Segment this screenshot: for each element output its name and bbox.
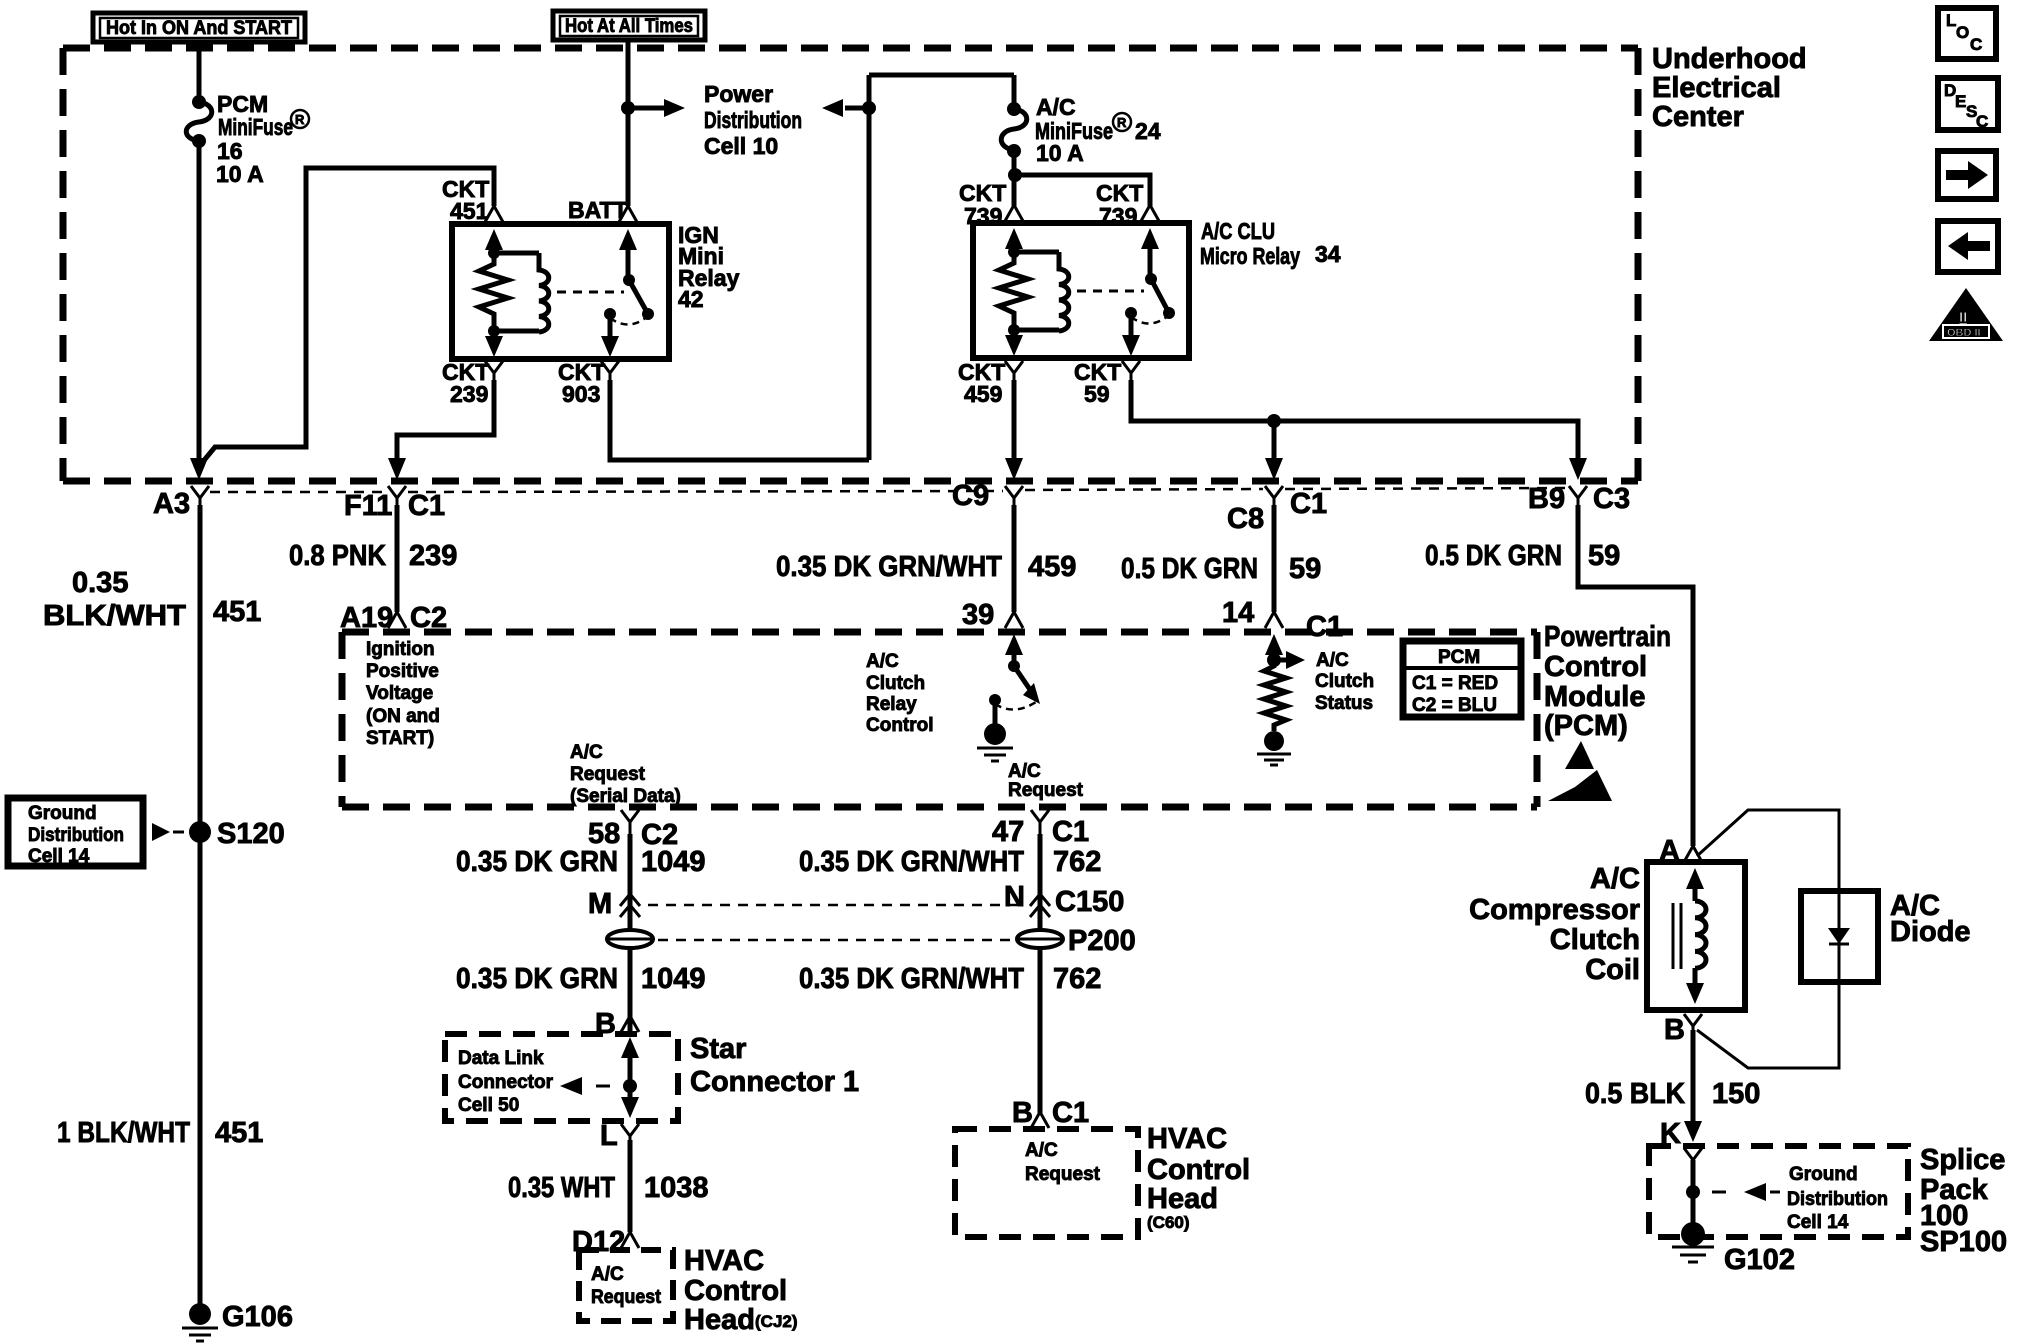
svg-text:F11: F11 <box>344 490 392 522</box>
icon DESC box <box>1938 78 1998 131</box>
svg-text:BLK/WHT: BLK/WHT <box>43 600 186 632</box>
label 0.5 BLK 150 <box>1585 1078 1760 1110</box>
svg-text:P200: P200 <box>1068 925 1136 957</box>
coil winding <box>1695 901 1706 968</box>
svg-text:Power: Power <box>704 81 773 107</box>
svg-text:C: C <box>1970 35 1982 54</box>
svg-text:10 A: 10 A <box>216 161 264 187</box>
relay 42 switch output arrow down <box>601 318 619 357</box>
svg-text:239: 239 <box>450 381 488 407</box>
label A/C Request (Serial Data) <box>570 742 681 807</box>
pin K (Y arms up) <box>1660 1118 1702 1170</box>
box HVAC Control Head C60 (dashed) <box>955 1129 1138 1237</box>
svg-text:O: O <box>1956 23 1969 42</box>
svg-text:HVAC: HVAC <box>684 1245 764 1277</box>
label HVAC Control Head (CJ2) <box>684 1245 798 1336</box>
svg-text:Ground: Ground <box>1789 1164 1858 1185</box>
svg-text:R: R <box>1117 115 1127 130</box>
svg-text:A/C: A/C <box>1036 94 1076 120</box>
svg-text:Star: Star <box>690 1033 746 1065</box>
svg-text:Cell 10: Cell 10 <box>704 133 778 159</box>
svg-text:Hot In ON And START: Hot In ON And START <box>106 18 292 39</box>
svg-text:Connector: Connector <box>458 1072 554 1093</box>
arrowhead into B9 <box>1569 458 1587 480</box>
svg-text:Underhood: Underhood <box>1652 43 1807 75</box>
label CKT 451 <box>442 176 489 224</box>
label 0.35 BLK/WHT 451 <box>43 567 261 632</box>
svg-text:24: 24 <box>1135 118 1161 144</box>
svg-text:Micro Relay: Micro Relay <box>1200 243 1300 269</box>
box Ground Distribution Cell 14 (left) <box>8 798 143 867</box>
label 0.35 DK GRN 1049 <box>456 846 706 878</box>
svg-text:Distribution: Distribution <box>1787 1189 1888 1210</box>
pin 14 / C1 (arms down) <box>1222 597 1343 643</box>
header label box "Hot At All Times" <box>553 11 705 40</box>
wire C8 down to pin 14 <box>1272 505 1277 612</box>
svg-text:59: 59 <box>1289 553 1321 585</box>
svg-text:A/C: A/C <box>1025 1140 1058 1161</box>
icon right-arrow box <box>1938 151 1996 199</box>
svg-text:739: 739 <box>964 203 1002 229</box>
wire branch down to C8 <box>1272 421 1277 462</box>
label A/C Request (PCM pin 47) <box>1008 761 1084 801</box>
svg-text:Cell 50: Cell 50 <box>458 1095 519 1116</box>
svg-text:A/C: A/C <box>591 1264 624 1285</box>
arrow right toward Power Distribution <box>628 106 668 111</box>
A/C clutch status: arrow up to pin 14 <box>1265 634 1305 669</box>
svg-text:47: 47 <box>992 816 1024 848</box>
svg-text:Module: Module <box>1544 681 1646 713</box>
pin 47 / C1 (Y arms up) <box>992 810 1089 848</box>
header label box "Hot In ON And START" <box>93 13 305 42</box>
svg-text:Splice: Splice <box>1920 1144 2005 1176</box>
relay 34 actuating dashed link <box>1077 290 1144 293</box>
wire L down to D12 <box>628 1140 633 1232</box>
resistor R (relay 34 coil resistor) <box>999 252 1028 330</box>
junction dot coil bottom <box>488 325 500 337</box>
svg-text:10 A: 10 A <box>1036 140 1084 166</box>
relay 42 coil output arrow down <box>485 331 503 357</box>
svg-text:C1 = RED: C1 = RED <box>1412 673 1498 694</box>
pin CKT239 connector (Y arms up) <box>485 361 503 382</box>
label CKT 739 (right) <box>1096 180 1143 229</box>
resistor R (relay 42 coil resistor) <box>479 253 508 331</box>
wire CKT59 across to B9 <box>1131 380 1578 462</box>
svg-text:Request: Request <box>591 1287 662 1308</box>
svg-text:1049: 1049 <box>641 846 706 878</box>
svg-text:MiniFuse: MiniFuse <box>218 114 293 140</box>
svg-text:Distribution: Distribution <box>704 107 802 133</box>
box HVAC Control Head CJ2 (dashed) <box>579 1250 673 1321</box>
svg-text:Request: Request <box>570 764 646 785</box>
PCM dashed enclosure <box>342 632 1537 807</box>
pin B compressor clutch coil (Y arms up) <box>1664 1014 1702 1046</box>
coil interior: arrow up <box>1686 868 1704 901</box>
svg-text:(PCM): (PCM) <box>1544 710 1628 742</box>
pin B / C1 into HVAC head (arms down) <box>1012 1097 1089 1129</box>
svg-text:Data Link: Data Link <box>458 1048 544 1069</box>
svg-text:OBD II: OBD II <box>1947 327 1981 339</box>
label A/C MiniFuse 24 10 A <box>1035 94 1161 166</box>
svg-text:A/C: A/C <box>1590 863 1640 895</box>
wire fuse24 to switch-side pin <box>1014 175 1150 206</box>
PCM connector legend box <box>1403 641 1521 717</box>
relay 34 coil output arrow down <box>1005 330 1023 356</box>
svg-text:0.8 PNK: 0.8 PNK <box>289 540 386 572</box>
arrowhead into K <box>1684 1121 1702 1142</box>
svg-text:150: 150 <box>1712 1078 1760 1110</box>
label 0.35 DK GRN/WHT 762 (second) <box>799 963 1101 995</box>
svg-text:Cell 14: Cell 14 <box>28 846 90 867</box>
svg-text:L: L <box>600 1120 618 1152</box>
wire 47/C1 down through N to B/C1 <box>1038 834 1043 1114</box>
svg-text:0.35 DK GRN/WHT: 0.35 DK GRN/WHT <box>799 846 1024 878</box>
svg-text:Cell 14: Cell 14 <box>1787 1212 1849 1233</box>
svg-text:G102: G102 <box>1724 1244 1795 1276</box>
label Splice Pack 100 SP100 <box>1920 1144 2007 1258</box>
svg-text:II: II <box>1959 309 1967 326</box>
wire A/C fuse drop <box>1012 75 1017 105</box>
svg-text:Coil: Coil <box>1585 954 1640 986</box>
svg-text:Clutch: Clutch <box>1315 671 1374 692</box>
svg-text:Connector 1: Connector 1 <box>690 1066 859 1098</box>
svg-text:C9: C9 <box>952 480 989 512</box>
A/C diode box <box>1801 891 1878 982</box>
junction dot coil top <box>488 247 500 259</box>
svg-text:Head: Head <box>684 1304 755 1336</box>
fuse A/C MiniFuse 24 (symbol) <box>1001 102 1027 158</box>
svg-text:C1: C1 <box>1052 1097 1089 1129</box>
star connector interior: arrow down <box>621 1086 639 1118</box>
pin B into star connector (arms down) <box>595 1008 639 1040</box>
arrowhead into F11 <box>388 458 406 480</box>
label Data Link Connector Cell 50 <box>458 1048 554 1116</box>
pin D12 (arms down) <box>572 1226 639 1258</box>
label A/C CLU Micro Relay 34 <box>1200 218 1341 269</box>
star connector interior: arrow up <box>621 1037 639 1095</box>
pin CKT59 connector (Y arms up) <box>1122 361 1140 382</box>
box Splice Pack 100 (dashed) <box>1649 1146 1908 1237</box>
svg-text:762: 762 <box>1053 963 1101 995</box>
svg-text:Electrical: Electrical <box>1652 72 1781 104</box>
relay U42 IGN Mini Relay box <box>452 224 669 359</box>
svg-text:BATT: BATT <box>568 197 628 223</box>
svg-text:START): START) <box>366 728 434 749</box>
svg-text:Control: Control <box>684 1275 787 1307</box>
svg-text:1038: 1038 <box>644 1172 709 1204</box>
svg-text:739: 739 <box>1099 203 1137 229</box>
svg-text:0.35 DK GRN/WHT: 0.35 DK GRN/WHT <box>776 551 1002 583</box>
svg-text:Compressor: Compressor <box>1469 894 1640 926</box>
svg-text:L: L <box>1946 11 1956 30</box>
svg-text:14: 14 <box>1222 597 1254 629</box>
relay 42 actuating dashed link <box>557 291 624 294</box>
junction dot for C8 branch <box>1267 414 1281 428</box>
label 0.5 DK GRN 59 <box>1121 553 1321 585</box>
wire top horizontal to A/C fuse <box>869 73 1014 78</box>
label 0.8 PNK 239 <box>289 540 457 572</box>
pin A3 (Y arms up) <box>153 486 209 520</box>
pin CKT903 connector (Y arms up) <box>601 361 619 382</box>
dashed link M to N <box>648 904 1026 907</box>
junction dot coil top <box>1008 246 1020 258</box>
svg-text:(Serial Data): (Serial Data) <box>570 786 681 807</box>
label Ground Distribution Cell 14 (splice pack) <box>1787 1164 1888 1233</box>
svg-text:1049: 1049 <box>641 963 706 995</box>
svg-text:C3: C3 <box>1593 483 1630 515</box>
icon LOC box <box>1938 8 1996 59</box>
label HVAC Control Head (C60) <box>1147 1123 1250 1232</box>
svg-text:C8: C8 <box>1227 503 1264 535</box>
svg-text:Voltage: Voltage <box>366 683 433 704</box>
wire fuse24 output / junction <box>1012 151 1017 206</box>
svg-text:C1: C1 <box>408 490 445 522</box>
splice S120 junction dot <box>189 818 285 850</box>
pin BATT connector (arms down) <box>619 206 637 222</box>
label 0.35 DK GRN 1049 (second) <box>456 963 706 995</box>
coil L (relay 34 winding) <box>1014 252 1069 331</box>
svg-text:E: E <box>1955 92 1966 111</box>
svg-text:Diode: Diode <box>1890 916 1971 948</box>
ground G102 <box>1672 1222 1795 1276</box>
wire B down to splice pack K <box>1691 1030 1696 1124</box>
wire CKT239 to F11 <box>397 380 494 462</box>
diagonal wire B to diode bottom <box>1697 982 1839 1068</box>
svg-text:G106: G106 <box>222 1301 293 1333</box>
relay 34 interior: coil-side arrow up <box>1005 228 1023 252</box>
svg-text:(ON and: (ON and <box>366 706 440 727</box>
pin M inline connector (double chevron) <box>588 888 640 920</box>
svg-text:451: 451 <box>215 1117 263 1149</box>
svg-text:B9: B9 <box>1528 483 1565 515</box>
pin A compressor clutch coil (arms down) <box>1659 835 1702 867</box>
pin CKT739 left connector (arms down) <box>1005 205 1023 221</box>
svg-text:S120: S120 <box>217 818 285 850</box>
pin B9 / C3 (Y arms up) <box>1528 483 1630 515</box>
diagonal wire A to diode top <box>1697 810 1839 891</box>
svg-text:Clutch: Clutch <box>1550 924 1640 956</box>
arrowhead into C9 <box>1005 458 1023 480</box>
label Ignition Positive Voltage (ON and START) <box>366 639 440 749</box>
wire CKT459 down to C9 <box>1012 380 1017 462</box>
svg-text:0.5 DK GRN: 0.5 DK GRN <box>1425 540 1562 572</box>
wire B9 down and over to compressor A <box>1578 505 1693 846</box>
svg-text:R: R <box>295 112 305 127</box>
arrow left toward Power Distribution from feed line <box>845 106 869 111</box>
label CKT 459 <box>958 359 1005 407</box>
ground (A/C clutch status) <box>1257 731 1291 765</box>
svg-text:34: 34 <box>1315 241 1341 267</box>
fuse PCM MiniFuse 16 (symbol) <box>186 95 212 148</box>
svg-text:Hot At All Times: Hot At All Times <box>565 16 693 37</box>
svg-text:SP100: SP100 <box>1920 1226 2007 1258</box>
pin 58 / C2 (Y arms up) <box>588 810 678 851</box>
svg-text:Center: Center <box>1652 101 1744 133</box>
dashed arrow to Ground Distribution Cell 14 <box>1712 1183 1780 1201</box>
svg-text:C1: C1 <box>1052 816 1089 848</box>
grommet P200 <box>1017 925 1136 957</box>
coil interior: arrow down <box>1686 968 1704 1004</box>
svg-text:Ignition: Ignition <box>366 639 435 660</box>
svg-text:PCM: PCM <box>1438 647 1480 668</box>
pin N inline connector (double chevron) / C150 <box>1004 881 1124 918</box>
coil core bars <box>1673 903 1681 969</box>
label CKT 739 (left) <box>959 180 1006 229</box>
junction dot coil bottom <box>1008 324 1020 336</box>
svg-text:C1: C1 <box>1306 611 1343 643</box>
UEC connector thin dashed line <box>210 488 1567 492</box>
coil L (relay 42 winding) <box>494 253 549 332</box>
svg-text:B: B <box>1664 1014 1685 1046</box>
svg-text:Distribution: Distribution <box>28 825 124 846</box>
svg-text:M: M <box>588 888 612 920</box>
ESD warning symbol <box>1548 741 1612 801</box>
svg-text:59: 59 <box>1588 540 1620 572</box>
svg-text:A/C: A/C <box>866 651 899 672</box>
svg-text:Head: Head <box>1147 1183 1218 1215</box>
label A/C Clutch Status <box>1315 650 1374 714</box>
label IGN Mini Relay 42 <box>678 222 740 312</box>
svg-text:459: 459 <box>1028 551 1076 583</box>
label Underhood Electrical Center <box>1652 43 1807 133</box>
svg-text:459: 459 <box>964 381 1002 407</box>
dashed link grommet to P200 <box>658 939 1012 942</box>
label CKT 903 <box>558 359 605 407</box>
pin CKT451 connector (arms down) <box>485 206 503 222</box>
junction dot on feed line <box>862 101 876 115</box>
svg-text:0.35 DK GRN: 0.35 DK GRN <box>456 846 618 878</box>
relay U42 interior: coil-side arrow up <box>485 229 503 253</box>
svg-text:762: 762 <box>1053 846 1101 878</box>
label PCM MiniFuse 16 10 A <box>216 91 309 187</box>
svg-text:Control: Control <box>1544 651 1647 683</box>
wire fuse16 output down to A3 <box>197 141 202 470</box>
pin L below star connector (Y arms up) <box>600 1120 639 1152</box>
svg-text:(CJ2): (CJ2) <box>755 1312 798 1331</box>
icon OBD II triangle <box>1929 288 2003 341</box>
svg-text:Ground: Ground <box>28 803 97 824</box>
label A/C Clutch Relay Control <box>866 651 934 736</box>
svg-text:0.5 DK GRN: 0.5 DK GRN <box>1121 553 1258 585</box>
svg-text:(C60): (C60) <box>1147 1213 1190 1232</box>
svg-text:0.35 DK GRN/WHT: 0.35 DK GRN/WHT <box>799 963 1024 995</box>
svg-text:Request: Request <box>1025 1164 1101 1185</box>
svg-text:903: 903 <box>562 381 600 407</box>
svg-text:A3: A3 <box>153 488 190 520</box>
pin F11 / C1 (Y arms up) <box>344 486 445 522</box>
label CKT 239 <box>442 359 489 407</box>
diode symbol <box>1828 891 1850 982</box>
svg-text:N: N <box>1004 881 1025 913</box>
relay 42 switch arm <box>604 229 654 325</box>
svg-text:59: 59 <box>1084 381 1110 407</box>
icon left-arrow box <box>1938 221 1998 272</box>
svg-text:1 BLK/WHT: 1 BLK/WHT <box>57 1117 190 1149</box>
svg-text:Control: Control <box>866 715 934 736</box>
svg-text:A/C: A/C <box>1008 761 1041 782</box>
label 0.35 DK GRN/WHT 762 <box>799 846 1101 878</box>
label A/C Diode <box>1890 890 1971 948</box>
svg-text:C2 = BLU: C2 = BLU <box>1412 695 1497 716</box>
splice pack interior wire <box>1691 1160 1696 1228</box>
svg-text:Request: Request <box>1008 780 1084 801</box>
svg-text:A/C: A/C <box>570 742 603 763</box>
svg-text:Relay: Relay <box>866 694 917 715</box>
svg-text:0.35 DK GRN: 0.35 DK GRN <box>456 963 618 995</box>
A/C clutch relay control switch: arrow up to pin 39 <box>1005 634 1040 704</box>
svg-text:Positive: Positive <box>366 661 439 682</box>
relay 34 switch output arrow down <box>1122 317 1140 356</box>
label 0.5 DK GRN 59 (right) <box>1425 540 1620 572</box>
relay 34 switch arm <box>1125 228 1175 324</box>
A/C compressor clutch coil box <box>1647 862 1745 1010</box>
pin 39 (arms down) <box>962 599 1023 631</box>
wire CKT451 to A3 (bend) <box>201 168 494 464</box>
wire BATT from Hot At All Times <box>626 40 631 206</box>
Underhood Electrical Center dashed enclosure <box>63 48 1638 481</box>
svg-text:42: 42 <box>678 286 704 312</box>
svg-text:Status: Status <box>1315 693 1373 714</box>
label CKT 59 <box>1074 359 1121 407</box>
svg-text:C150: C150 <box>1055 886 1124 918</box>
svg-text:451: 451 <box>213 596 261 628</box>
wire CKT903 to power distribution riser <box>610 380 869 460</box>
dashed arrow to Data Link Connector <box>560 1077 637 1095</box>
svg-text:239: 239 <box>409 540 457 572</box>
svg-text:0.35 WHT: 0.35 WHT <box>508 1172 615 1204</box>
grommet (left, at P200) <box>607 930 653 948</box>
wire feed line vertical (power distribution riser) <box>867 75 872 460</box>
svg-text:C: C <box>1976 112 1988 131</box>
wire F11 down to A19 <box>395 505 400 612</box>
svg-text:Powertrain: Powertrain <box>1544 621 1671 653</box>
pin A19 / C2 (arms down) <box>340 602 447 634</box>
junction dot on BATT wire <box>621 101 635 115</box>
svg-text:B: B <box>1012 1097 1033 1129</box>
svg-text:Control: Control <box>1147 1154 1250 1186</box>
svg-text:39: 39 <box>962 599 994 631</box>
wire C9 down to pin 39 <box>1012 505 1017 612</box>
wire A3 down to G106 <box>198 505 203 1306</box>
ground G106 <box>182 1301 293 1341</box>
svg-text:451: 451 <box>450 198 489 224</box>
svg-text:HVAC: HVAC <box>1147 1123 1227 1155</box>
box Star Connector 1 (dashed) <box>445 1033 859 1121</box>
label A/C Compressor Clutch Coil <box>1469 863 1640 986</box>
svg-text:A/C: A/C <box>1316 650 1349 671</box>
relay U34 A/C CLU Micro Relay box <box>973 223 1189 358</box>
resistor (A/C clutch status) <box>1264 660 1286 731</box>
label 0.35 DK GRN/WHT 459 <box>776 551 1076 583</box>
pin C8 / C1 (Y arms up) <box>1227 486 1327 535</box>
label 0.35 WHT 1038 <box>508 1172 709 1204</box>
pin C9 (Y arms up) <box>952 480 1023 512</box>
svg-text:0.5 BLK: 0.5 BLK <box>1585 1078 1685 1110</box>
pin CKT739 right connector (arms down) <box>1141 205 1159 221</box>
wire 58/C2 down through M to B <box>628 834 633 1036</box>
arrowhead into A3 <box>190 458 208 480</box>
label Powertrain Control Module (PCM) <box>1544 621 1671 742</box>
svg-text:Clutch: Clutch <box>866 673 925 694</box>
wire from Hot In ON And START down to fuse 16 <box>197 44 202 102</box>
svg-text:A/C CLU: A/C CLU <box>1201 218 1275 244</box>
arrow from ground distribution to S120 <box>152 823 184 841</box>
label 1 BLK/WHT 451 <box>57 1117 263 1149</box>
svg-text:0.35: 0.35 <box>72 567 128 599</box>
junction dot in splice pack <box>1686 1185 1700 1199</box>
label Power Distribution Cell 10 <box>704 81 802 159</box>
svg-text:C1: C1 <box>1290 488 1327 520</box>
